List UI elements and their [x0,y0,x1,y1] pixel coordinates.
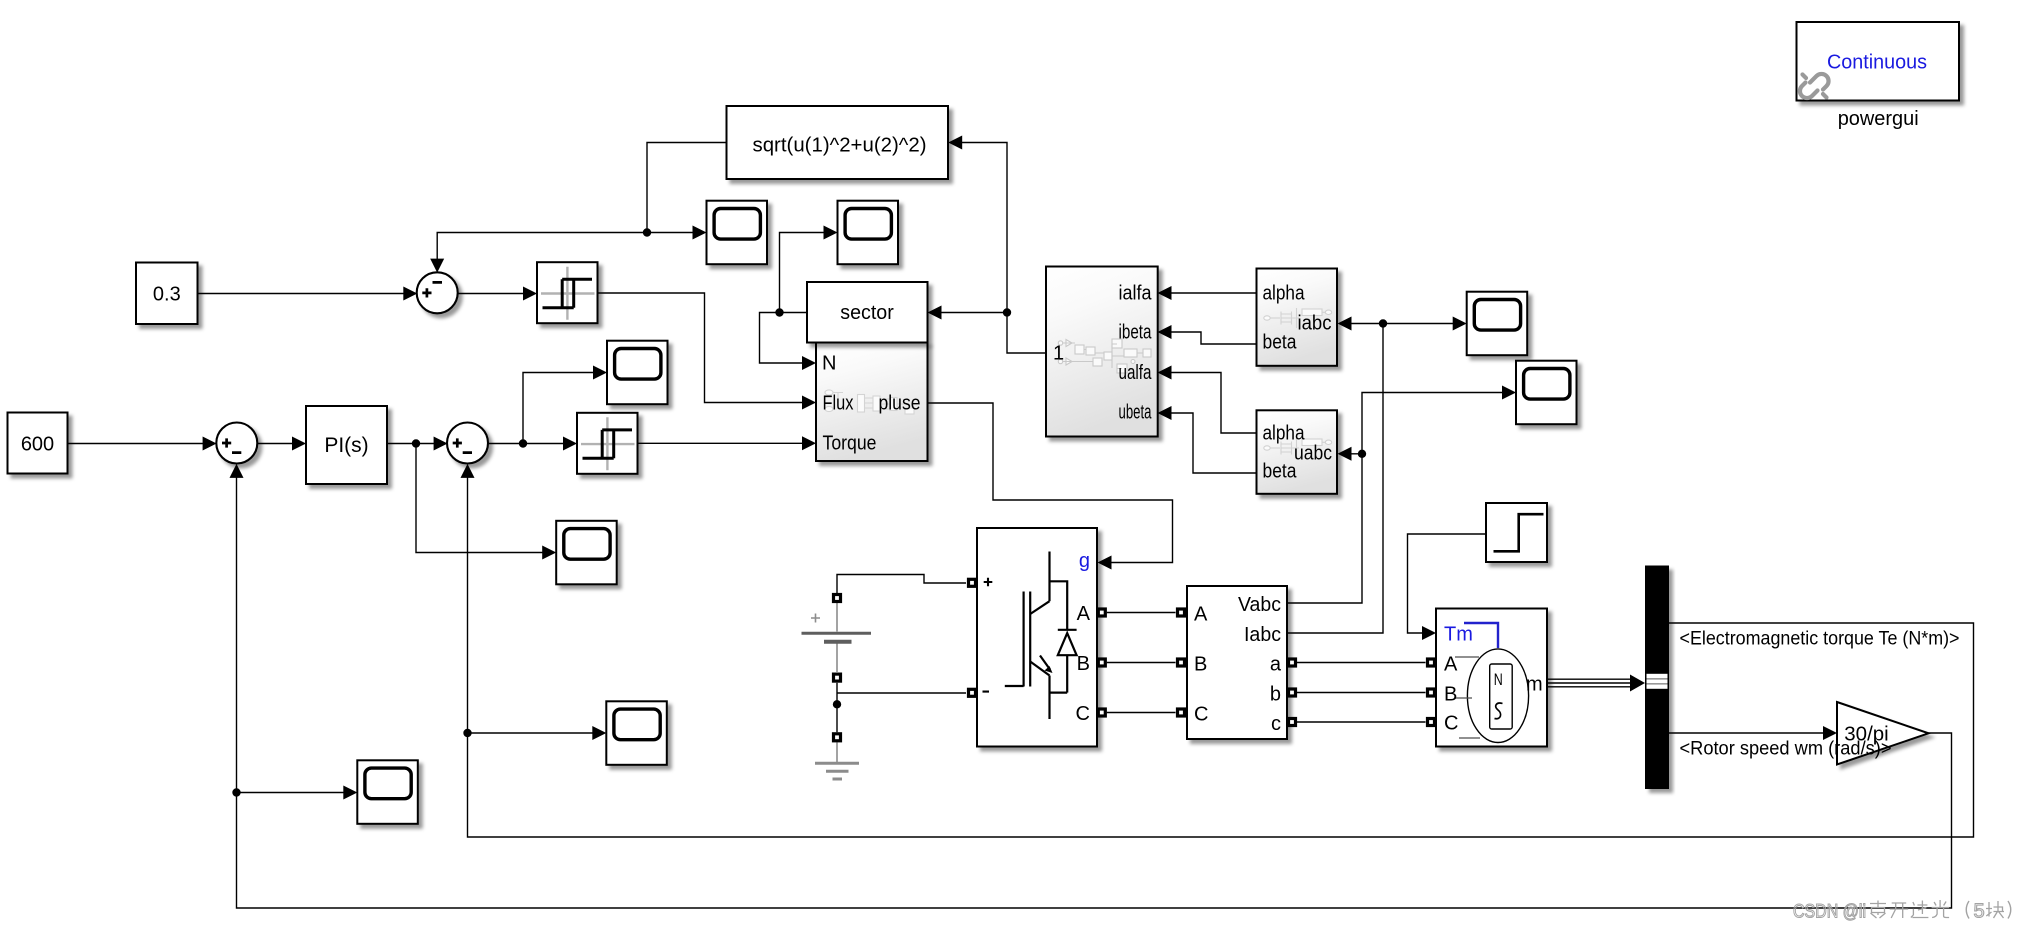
svg-text:N: N [822,352,836,374]
svg-text:CSDN @li: CSDN @li [1793,900,1866,922]
svg-text:sqrt(u(1)^2+u(2)^2): sqrt(u(1)^2+u(2)^2) [753,135,927,157]
svg-text:b: b [1270,683,1281,705]
svg-text:c: c [1271,713,1281,735]
svg-text:B: B [1444,684,1457,706]
svg-text:B: B [1077,653,1090,675]
svg-text:Flux: Flux [823,392,854,414]
svg-text:alpha: alpha [1263,422,1306,444]
svg-text:ualfa: ualfa [1119,362,1153,384]
svg-text:C: C [1194,703,1208,725]
svg-text:A: A [1444,654,1458,676]
svg-text:1: 1 [1053,342,1064,364]
svg-text:beta: beta [1263,460,1298,482]
svg-text:ubeta: ubeta [1119,402,1153,424]
svg-text:sector: sector [840,302,894,324]
svg-text:B: B [1194,653,1207,675]
svg-text:Torque: Torque [823,433,877,455]
svg-text:A: A [1077,603,1091,625]
svg-text:alpha: alpha [1263,282,1306,304]
svg-text:m: m [1526,674,1543,696]
svg-text:powergui: powergui [1838,108,1919,130]
svg-text:C: C [1076,703,1090,725]
svg-text:iabc: iabc [1298,312,1332,334]
svg-text:600: 600 [21,434,54,456]
svg-text:Vabc: Vabc [1238,594,1281,616]
svg-text:5: 5 [1974,900,1985,922]
svg-text:Tm: Tm [1444,624,1473,646]
svg-text:PI(s): PI(s) [324,434,368,457]
svg-text:<Rotor speed wm (rad/s)>: <Rotor speed wm (rad/s)> [1680,738,1892,759]
svg-text:beta: beta [1263,331,1298,353]
svg-text:g: g [1079,550,1090,572]
svg-text:<Electromagnetic torque Te (N*: <Electromagnetic torque Te (N*m)> [1680,629,1960,650]
svg-text:Continuous: Continuous [1827,50,1927,73]
svg-text:a: a [1270,653,1282,675]
svg-text:0.3: 0.3 [153,284,181,306]
svg-text:uabc: uabc [1294,443,1332,465]
svg-text:N: N [1494,670,1503,689]
svg-text:pluse: pluse [879,392,921,414]
svg-text:ibeta: ibeta [1119,322,1153,344]
svg-text:A: A [1194,603,1208,625]
svg-text:C: C [1444,713,1458,735]
svg-text:ialfa: ialfa [1119,283,1153,305]
svg-text:Iabc: Iabc [1244,624,1281,646]
